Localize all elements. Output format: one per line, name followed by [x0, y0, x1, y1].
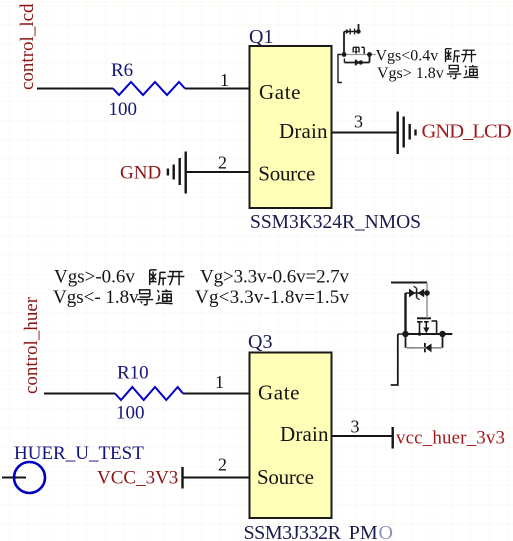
svg-text:3: 3	[351, 417, 360, 437]
svg-text:control_lcd: control_lcd	[17, 3, 38, 90]
svg-text:vcc_huer_3v3: vcc_huer_3v3	[396, 428, 505, 449]
svg-text:Drain: Drain	[280, 422, 329, 446]
svg-text:Drain: Drain	[279, 119, 328, 143]
svg-text:VCC_3V3: VCC_3V3	[97, 468, 178, 489]
svg-text:1: 1	[220, 70, 229, 90]
svg-text:2: 2	[218, 153, 227, 173]
svg-text:100: 100	[116, 403, 145, 424]
svg-text:Q3: Q3	[248, 331, 272, 353]
svg-text:R6: R6	[111, 60, 133, 81]
svg-text:Vgs> 1.8v: Vgs> 1.8v	[377, 65, 444, 82]
svg-text:SSM3J332R: SSM3J332R	[244, 522, 342, 541]
svg-text:Source: Source	[258, 162, 315, 186]
svg-text:SSM3K324R_NMOS: SSM3K324R_NMOS	[250, 212, 421, 233]
svg-text:100: 100	[109, 99, 138, 120]
svg-text:O: O	[379, 522, 393, 541]
svg-text:Q1: Q1	[249, 26, 273, 48]
svg-text:Vgs>-0.6v: Vgs>-0.6v	[54, 267, 135, 288]
svg-text:R10: R10	[117, 363, 149, 384]
svg-text:Gate: Gate	[258, 381, 300, 405]
svg-text:control_huer: control_huer	[21, 296, 42, 394]
svg-text:Vg>3.3v-0.6v=2.7v: Vg>3.3v-0.6v=2.7v	[200, 267, 350, 288]
svg-text:Source: Source	[257, 465, 314, 489]
svg-text:PM: PM	[349, 522, 378, 541]
svg-text:Vg<3.3v-1.8v=1.5v: Vg<3.3v-1.8v=1.5v	[195, 287, 350, 308]
svg-text:3: 3	[354, 112, 363, 132]
svg-text:Gate: Gate	[259, 80, 301, 104]
svg-text:1: 1	[215, 372, 224, 392]
svg-text:GND_LCD: GND_LCD	[422, 121, 512, 143]
svg-text:GND: GND	[120, 163, 161, 184]
svg-text:Vgs<- 1.8v: Vgs<- 1.8v	[53, 287, 139, 308]
svg-text:Vgs<0.4v: Vgs<0.4v	[376, 48, 439, 65]
svg-text:HUER_U_TEST: HUER_U_TEST	[14, 443, 144, 464]
svg-text:2: 2	[218, 455, 227, 475]
